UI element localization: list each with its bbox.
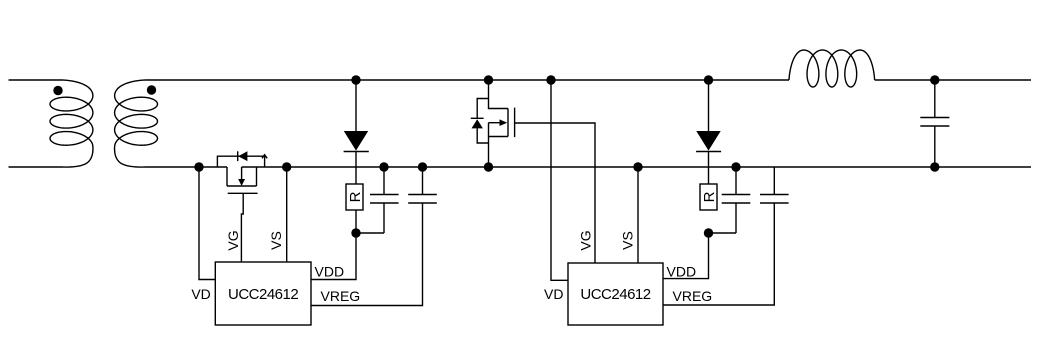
wire VDD1 to U1: [311, 233, 356, 280]
svg-text:VS: VS: [620, 231, 636, 250]
node VS1 junction: [282, 162, 291, 171]
capacitor C1 bottom lead: [383, 203, 385, 233]
node VDD2 junction: [704, 228, 713, 237]
capacitor C2 plates: [408, 195, 437, 204]
capacitor C1 top lead: [383, 167, 385, 195]
U2 pin label VS: [620, 231, 636, 250]
node output bottom junction: [930, 162, 939, 171]
wire VS2 to U2: [637, 167, 639, 263]
capacitor C4 plates: [760, 195, 789, 204]
node VS2 junction: [633, 162, 642, 171]
svg-text:VD: VD: [544, 286, 563, 302]
U1 pin label VREG: [321, 288, 361, 304]
transistor Q1 channel bar: [227, 185, 257, 187]
svg-text:VS: VS: [268, 231, 284, 250]
transistor Q2 gate plate: [514, 108, 516, 138]
node C3 top junction: [731, 162, 740, 171]
transistor Q2 body diode branch: [477, 99, 488, 144]
U1 pin label VD: [191, 286, 210, 302]
transistor Q2 source lead: [488, 123, 490, 167]
capacitor C4 bottom lead to VREG2: [663, 203, 774, 305]
svg-text:VD: VD: [191, 286, 210, 302]
svg-text:VG: VG: [225, 230, 241, 250]
wire bottom rail (Q1 source to right edge): [242, 166, 1031, 168]
U2 pin label VD: [544, 286, 563, 302]
wire bottom rail (secondary to Q1 drain): [145, 166, 227, 168]
svg-text:VDD: VDD: [667, 263, 697, 279]
U2 pin label VDD: [667, 263, 697, 279]
U2 pin label VREG: [673, 288, 713, 304]
svg-text:UCC24612: UCC24612: [580, 286, 650, 303]
resistor R2 label: [701, 191, 718, 202]
resistor R1 label: [347, 191, 364, 202]
transistor Q1 channel drop right: [256, 167, 258, 186]
resistor R1 body: [346, 184, 363, 210]
U1 pin label VS: [268, 231, 284, 250]
capacitor C3 plates: [722, 195, 751, 204]
svg-text:R: R: [701, 191, 718, 202]
U1 label UCC24612: [228, 286, 298, 303]
diode D2 lead and body: [696, 80, 721, 184]
transistor Q1 gate plate: [228, 192, 258, 194]
svg-text:VREG: VREG: [673, 288, 713, 304]
node VD1 junction: [194, 162, 203, 171]
transistor Q1 source arrow: [238, 167, 245, 186]
U1 pin label VDD: [315, 263, 345, 279]
node D1 anode junction: [351, 75, 360, 84]
svg-text:VREG: VREG: [321, 288, 361, 304]
U2 pin label VG: [578, 230, 594, 250]
transistor Q2 source arrow: [489, 119, 508, 126]
U2 label UCC24612: [580, 286, 650, 303]
capacitor C5 plates: [920, 118, 949, 127]
diode D1 lead and body: [344, 80, 369, 184]
node VDD1 junction: [351, 228, 360, 237]
capacitor C4 top lead: [773, 167, 775, 195]
capacitor C3 top lead: [735, 167, 737, 195]
svg-text:VDD: VDD: [315, 263, 345, 279]
node C1 top junction: [379, 162, 388, 171]
capacitor C2 bottom lead to VREG1: [311, 203, 423, 306]
capacitor C2 top lead: [422, 167, 424, 195]
transistor Q1 drain tick arrow: [262, 155, 267, 159]
transformer T1 secondary phase dot: [147, 85, 156, 94]
capacitor C1 plates: [370, 195, 399, 204]
svg-text:UCC24612: UCC24612: [228, 286, 298, 303]
svg-text:R: R: [347, 191, 364, 202]
transistor Q1 channel drop left: [226, 167, 228, 186]
transistor Q1 body diode branch: [217, 156, 266, 167]
wire top rail (secondary top to inductor): [146, 79, 790, 81]
transistor Q1 body diode: [238, 151, 248, 161]
transistor Q2 channel bar: [507, 109, 509, 137]
capacitor C5 top lead: [934, 80, 936, 118]
wire VD1 to U1: [199, 167, 215, 280]
capacitor C3 bottom lead: [735, 203, 737, 233]
node Q2 drain junction: [484, 75, 493, 84]
wire R1 bottom to node: [355, 210, 357, 233]
op-amp U1 box UCC24612: [215, 262, 311, 325]
transformer T1 secondary winding: [115, 80, 158, 167]
node VD2 junction top rail: [546, 75, 555, 84]
wire Q2 gate to VG2: [515, 123, 595, 263]
transistor Q2 source stub: [489, 136, 509, 138]
op-amp U2 box UCC24612: [568, 263, 663, 325]
transformer T1 primary phase dot: [53, 86, 62, 95]
wire VDD2 to U2: [663, 233, 709, 279]
node C2 top junction: [418, 162, 427, 171]
svg-text:VG: VG: [578, 230, 594, 250]
transistor Q1 gate lead: [241, 193, 243, 262]
wire VD2 to U2: [551, 80, 568, 280]
transformer T1 primary winding: [50, 80, 93, 167]
wire top rail left (primary top lead): [9, 79, 63, 81]
node output top junction: [930, 75, 939, 84]
transistor Q2 body diode: [471, 118, 484, 128]
wire VDD1 node to C1: [356, 232, 384, 234]
wire top rail (inductor to right edge): [875, 79, 1031, 81]
node D2 anode junction: [704, 75, 713, 84]
inductor L1: [789, 50, 875, 87]
resistor R2 body: [700, 184, 717, 210]
U1 pin label VG: [225, 230, 241, 250]
transistor Q2 drain lead: [489, 80, 509, 109]
wire bottom rail left (primary bottom lead): [9, 166, 63, 168]
node Q2 source junction: [484, 162, 493, 171]
wire VDD2 node to C3: [709, 232, 737, 234]
wire VS1 to U1: [286, 167, 288, 262]
capacitor C5 bottom lead: [934, 126, 936, 167]
